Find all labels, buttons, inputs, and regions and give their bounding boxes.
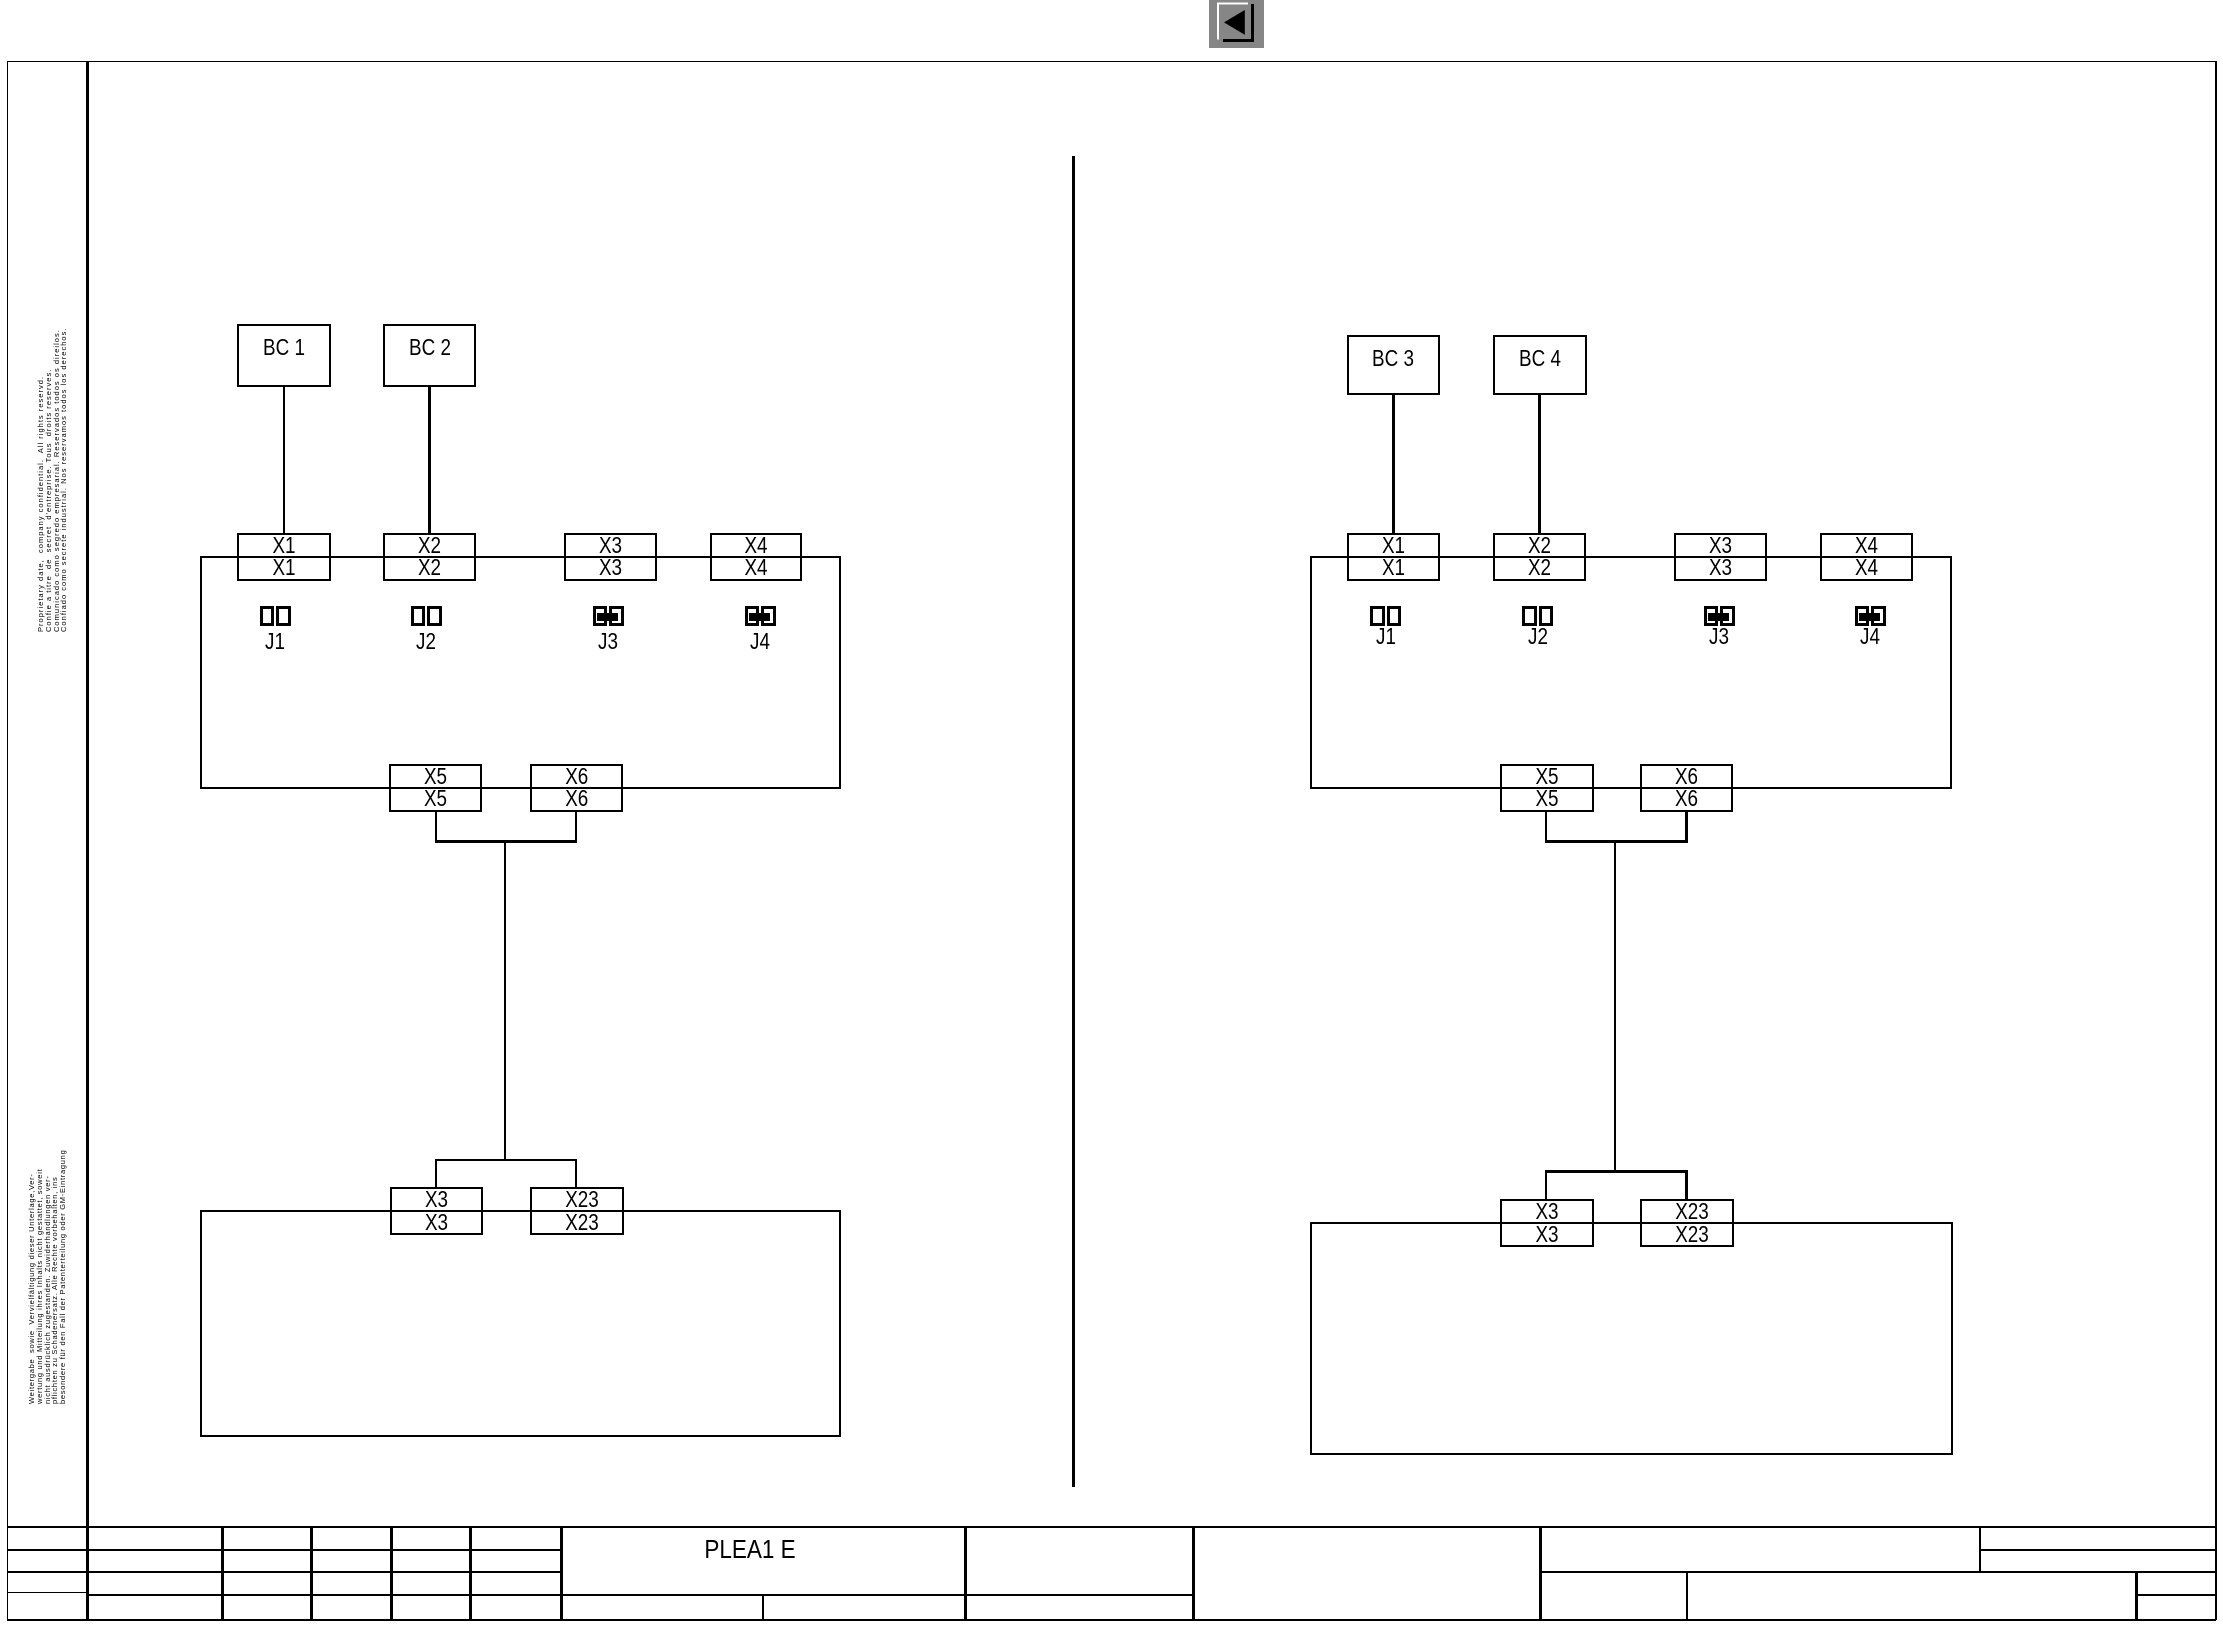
title block row line a right — [1980, 1549, 2216, 1551]
connector X23 lower left — [530, 1187, 624, 1235]
connector X4 left — [710, 533, 802, 581]
title block top line — [7, 1526, 2216, 1528]
title block column line 3 — [390, 1526, 393, 1621]
module box left — [200, 556, 841, 789]
wire BC2 to X2 — [428, 386, 431, 534]
connector X3 lower left — [390, 1187, 483, 1235]
label BC 4 — [1499, 345, 1581, 371]
BC 1 box — [237, 324, 332, 388]
wire Y-join upper right — [1545, 840, 1688, 843]
label J4 — [740, 631, 781, 651]
sidebar weitergabe notice (bottom) — [28, 1150, 67, 1404]
wire X5 stub right — [1545, 811, 1548, 843]
label J2 — [1517, 626, 1558, 646]
jumper J2 open right — [1522, 606, 1553, 626]
title block column line 6 — [964, 1526, 967, 1621]
center divider — [1072, 156, 1075, 1487]
wire X23 leg right — [1685, 1172, 1688, 1201]
title block column line 4 — [469, 1526, 472, 1621]
jumper J1 open right — [1370, 606, 1401, 626]
wire X6 stub right — [1685, 811, 1688, 843]
BC 3 box — [1347, 335, 1441, 396]
title block row line b left — [7, 1571, 561, 1573]
wire BC1 to X1 — [283, 386, 286, 534]
connector X1 right — [1347, 533, 1440, 581]
connector X6 right — [1640, 764, 1733, 812]
wire X6 stub left — [575, 811, 578, 843]
module box right — [1310, 556, 1952, 789]
jumper J4 closed right — [1855, 606, 1886, 626]
connector X3 right — [1674, 533, 1767, 581]
wire BC4 to X2 — [1538, 394, 1541, 534]
wire center stem left — [504, 842, 507, 1162]
wire BC3 to X1 — [1392, 394, 1395, 534]
wire center stem right — [1614, 842, 1617, 1173]
nav back button — [1209, 0, 1264, 48]
title block tick below title — [762, 1595, 765, 1620]
frame top border — [7, 61, 2216, 63]
label J3 — [588, 631, 629, 651]
device box lower right — [1310, 1222, 1953, 1455]
wire Y-join upper left — [435, 840, 578, 843]
label J3 — [1699, 626, 1740, 646]
title block column line 11 — [2135, 1572, 2138, 1620]
sidebar proprietary notice (top) — [37, 328, 68, 632]
wire X3 leg left — [435, 1160, 438, 1188]
connector X3 left — [564, 533, 657, 581]
connector X6 left — [530, 764, 624, 812]
frame right border — [2215, 61, 2217, 1620]
title block column line 5 — [560, 1526, 563, 1621]
title text PLEA1 E — [655, 1536, 845, 1562]
title block row line b right — [1540, 1571, 2216, 1573]
jumper J2 open left — [411, 606, 442, 626]
frame bottom border — [7, 1619, 2216, 1621]
wire X3 leg right — [1545, 1172, 1548, 1201]
title block column line 10 — [1979, 1527, 1981, 1573]
title block column line 1 — [221, 1526, 224, 1621]
connector X2 right — [1493, 533, 1586, 581]
title block column line 2 — [310, 1526, 313, 1621]
label J1 — [1365, 626, 1406, 646]
title block row line c left — [86, 1594, 1193, 1597]
label J4 — [1850, 626, 1891, 646]
jumper J1 open left — [260, 606, 291, 626]
title block row line a left — [7, 1549, 561, 1551]
connector X4 right — [1820, 533, 1913, 581]
wire Y-join lower left — [435, 1159, 578, 1162]
connector X5 left — [389, 764, 482, 812]
title block row line c right — [2136, 1594, 2216, 1596]
wire X5 stub left — [435, 811, 438, 843]
connector X23 lower right — [1640, 1199, 1734, 1247]
connector X5 right — [1500, 764, 1594, 812]
title block column line 9 — [1686, 1572, 1689, 1620]
connector X3 lower right — [1500, 1199, 1594, 1247]
frame inner thick border — [86, 61, 90, 1620]
label J1 — [255, 631, 296, 651]
title block row line c margin — [7, 1592, 86, 1594]
BC 2 box — [383, 324, 477, 388]
wire Y-join lower right — [1545, 1170, 1688, 1173]
BC 4 box — [1493, 335, 1587, 396]
connector X2 left — [383, 533, 476, 581]
frame left border — [7, 61, 9, 1620]
title block column line 8 — [1539, 1527, 1542, 1621]
wire X23 leg left — [575, 1160, 578, 1188]
jumper J3 closed right — [1704, 606, 1735, 626]
jumper J3 closed left — [593, 606, 624, 626]
label BC 1 — [243, 334, 325, 360]
label BC 2 — [389, 334, 471, 360]
label BC 3 — [1352, 345, 1434, 371]
title block column line 7 — [1192, 1526, 1195, 1621]
device box lower left — [200, 1210, 841, 1437]
label J2 — [406, 631, 447, 651]
connector X1 left — [237, 533, 331, 581]
jumper J4 closed left — [745, 606, 776, 626]
